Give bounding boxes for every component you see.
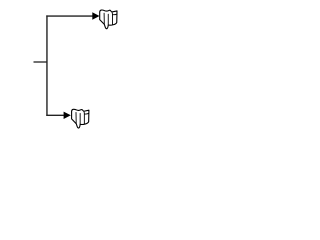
arrowhead bottom xyxy=(64,112,71,119)
wire: bottom branch xyxy=(46,114,64,116)
wire: left stub xyxy=(34,61,48,63)
hand icon bottom xyxy=(72,109,89,128)
arrowhead top xyxy=(92,12,99,19)
hand icon top xyxy=(100,10,117,29)
wire: top branch xyxy=(46,15,92,17)
wire: vertical trunk xyxy=(46,15,48,116)
